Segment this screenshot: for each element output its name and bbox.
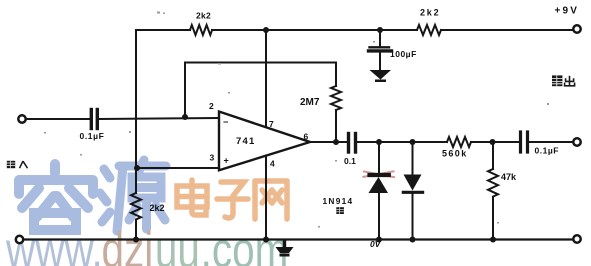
svg-text:.com: .com	[201, 222, 289, 266]
svg-text:+: +	[224, 156, 229, 166]
svg-text:0.1: 0.1	[344, 156, 356, 166]
svg-text:+9V: +9V	[555, 6, 580, 17]
svg-text:3: 3	[210, 153, 215, 163]
svg-text:dzi: dzi	[102, 222, 154, 266]
svg-text:0V: 0V	[370, 239, 382, 249]
svg-text:6: 6	[304, 132, 309, 142]
svg-text:4: 4	[270, 159, 275, 169]
svg-text:0.1µF: 0.1µF	[535, 146, 559, 156]
svg-text:2k2: 2k2	[420, 8, 440, 18]
svg-text:2M7: 2M7	[300, 97, 320, 108]
svg-text:−: −	[223, 117, 228, 127]
svg-text:2k2: 2k2	[150, 203, 165, 213]
svg-text:47k: 47k	[501, 172, 517, 182]
svg-text:2: 2	[209, 101, 214, 111]
svg-text:741: 741	[236, 136, 255, 147]
svg-text:560k: 560k	[442, 149, 468, 159]
svg-text:2k2: 2k2	[196, 11, 211, 21]
svg-text:100µF: 100µF	[390, 49, 417, 59]
svg-text:0.1µF: 0.1µF	[80, 131, 105, 141]
svg-text:uu: uu	[155, 222, 200, 266]
svg-text:1N914: 1N914	[323, 196, 354, 206]
svg-text:7: 7	[269, 119, 274, 129]
